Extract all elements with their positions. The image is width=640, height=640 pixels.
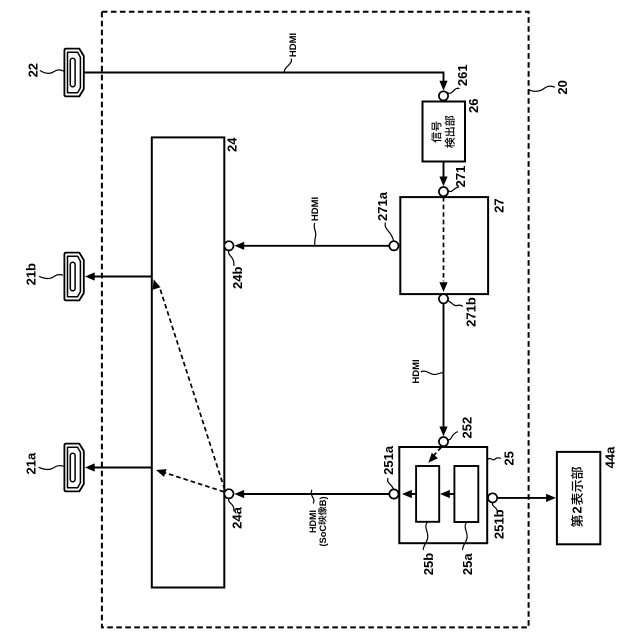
leader for 252 xyxy=(448,432,458,440)
arrow into terminal 24b xyxy=(234,242,244,250)
svg-text:24: 24 xyxy=(224,137,239,152)
HDMI connector 21b xyxy=(64,253,83,301)
leader for 22 xyxy=(40,70,63,73)
leader for HDMI top xyxy=(284,59,291,72)
text 第2表示部 in block 44a xyxy=(570,467,585,527)
leader for 271a xyxy=(385,223,394,241)
svg-text:22: 22 xyxy=(26,63,41,77)
block 25 (processing) xyxy=(399,447,487,543)
svg-text:HDMI: HDMI xyxy=(310,197,321,221)
block 24 (switch) xyxy=(152,137,225,587)
terminal 271b xyxy=(439,294,448,303)
leader for HDMI mid xyxy=(314,224,316,245)
svg-text:44a: 44a xyxy=(603,446,618,468)
dashed pass-through wire inside block 27 xyxy=(443,197,445,282)
svg-text:27: 27 xyxy=(491,198,506,212)
wire block 24 to connector 21a xyxy=(95,467,152,469)
arrow of dashed wire at 21a exit xyxy=(155,466,167,477)
HDMI connector 21a xyxy=(64,444,83,492)
leader for 21a xyxy=(39,466,63,470)
svg-text:21b: 21b xyxy=(24,263,39,285)
leader for label 25 xyxy=(488,458,501,460)
leader for HDMI SoC label xyxy=(311,490,314,503)
block 26 signal detection unit xyxy=(423,102,466,162)
block 25a xyxy=(454,466,478,522)
wire terminal 251a to terminal 24a (HDMI SoC) xyxy=(244,493,389,495)
leader for label 20 xyxy=(529,86,555,91)
leader for 25b xyxy=(423,523,428,550)
arrow into terminal 261 xyxy=(439,81,447,91)
terminal 252 xyxy=(439,437,448,446)
wire block26 to terminal 271 xyxy=(443,162,445,178)
svg-text:24a: 24a xyxy=(230,506,245,528)
svg-text:(SoC: (SoC xyxy=(318,525,328,547)
leader for 24b xyxy=(229,251,234,266)
dashed arrow wire terminal 252 to block 25b xyxy=(432,448,441,458)
text 信号検出部 in block 26 xyxy=(431,116,455,148)
wire 25b to left edge of block 25 xyxy=(410,493,417,495)
dashed device boundary 20 xyxy=(102,12,529,628)
svg-text:26: 26 xyxy=(466,99,481,113)
terminal 271a xyxy=(389,241,398,250)
leader for 21b xyxy=(40,275,63,279)
block 27 (repeater) xyxy=(400,197,488,294)
wire terminal 251b to block 44a xyxy=(497,497,547,499)
arrow into block 44a xyxy=(546,494,556,502)
wire 25a to 25b xyxy=(447,493,454,495)
svg-text:24b: 24b xyxy=(230,267,245,289)
dashed wire 24a to 21a exit xyxy=(163,472,225,492)
HDMI connector 22 xyxy=(64,49,83,97)
leader for HDMI vertical xyxy=(421,371,443,374)
svg-text:251a: 251a xyxy=(381,445,396,475)
svg-text:252: 252 xyxy=(460,417,475,439)
arrow into terminal 24a xyxy=(234,490,244,498)
wire from connector 22 to terminal 261 xyxy=(84,73,444,82)
wire block 24 to connector 21b xyxy=(95,276,152,278)
leader for 271 xyxy=(448,187,458,192)
leader for 271b xyxy=(448,301,462,306)
svg-text:21a: 21a xyxy=(24,452,39,474)
svg-text:B): B) xyxy=(318,496,328,506)
arrow into terminal 271 xyxy=(439,177,447,187)
arrow into connector 21a xyxy=(85,463,95,471)
svg-text:271b: 271b xyxy=(463,297,478,327)
terminal 251a xyxy=(389,489,398,498)
terminal 261 xyxy=(439,91,448,100)
arrow into 25b xyxy=(440,490,450,498)
terminal 271 xyxy=(439,187,448,196)
block 44a second display unit xyxy=(557,452,600,544)
leader for 251a xyxy=(388,478,394,489)
svg-text:251b: 251b xyxy=(492,509,507,539)
leader for 251b xyxy=(492,503,497,514)
block 25b xyxy=(416,466,439,522)
svg-text:HDMI: HDMI xyxy=(288,33,299,57)
arrow into terminal 252 xyxy=(439,427,447,437)
terminal 24b xyxy=(224,241,233,250)
arrow of dashed wire onto 25b xyxy=(425,453,438,466)
svg-text:2: 2 xyxy=(570,506,585,513)
arrow of dashed wire in block 27 xyxy=(439,282,447,292)
svg-text:261: 261 xyxy=(455,64,470,86)
svg-text:HDMI: HDMI xyxy=(308,510,318,533)
svg-text:20: 20 xyxy=(555,80,570,94)
svg-text:25b: 25b xyxy=(421,553,436,575)
wire terminal 271a to terminal 24b (HDMI) xyxy=(244,245,389,247)
svg-text:HDMI: HDMI xyxy=(411,359,422,383)
arrow at left edge inside block 25 xyxy=(402,490,412,498)
svg-text:271a: 271a xyxy=(375,191,390,221)
wire terminal 271b to terminal 252 xyxy=(443,303,445,427)
label HDMI (SoC video B) two lines xyxy=(308,496,328,546)
leader for 261 xyxy=(447,88,459,93)
svg-text:25: 25 xyxy=(502,451,517,465)
arrow of dashed wire at 21b exit xyxy=(150,278,161,290)
terminal 24a xyxy=(224,489,233,498)
leader for 24a xyxy=(229,499,234,512)
arrow into connector 21b xyxy=(85,272,95,280)
svg-text:25a: 25a xyxy=(460,553,475,575)
leader for 25a xyxy=(463,523,468,550)
svg-text:271: 271 xyxy=(453,166,468,188)
dashed wire 24a to 21b exit xyxy=(160,287,225,489)
terminal 251b xyxy=(488,493,497,502)
